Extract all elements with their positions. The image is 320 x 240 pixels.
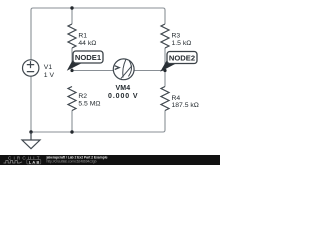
svg-text:LAB: LAB xyxy=(29,160,40,164)
junction dot ground xyxy=(29,130,32,133)
wire R3 bottom lead xyxy=(164,48,166,71)
svg-text:NODE1: NODE1 xyxy=(75,53,102,62)
footer bar xyxy=(0,155,220,165)
wire R1 top lead xyxy=(71,8,73,24)
wire voltmeter to node2 xyxy=(134,70,166,72)
footer logo squarewave xyxy=(4,161,23,163)
svg-text:0.000 V: 0.000 V xyxy=(108,93,138,100)
node NODE2 flag xyxy=(160,52,197,73)
resistor R4 xyxy=(161,87,199,111)
svg-text:1.5 kΩ: 1.5 kΩ xyxy=(172,40,192,47)
wire node1 to voltmeter xyxy=(72,70,114,72)
wire R2 bottom lead xyxy=(71,111,73,133)
svg-text:V1: V1 xyxy=(44,64,53,71)
svg-text:R3: R3 xyxy=(172,32,181,39)
ground xyxy=(22,132,40,149)
resistor R3 xyxy=(161,24,191,48)
junction dot R2 bottom xyxy=(70,130,73,133)
resistor R2 xyxy=(68,87,100,111)
svg-text:5.5 MΩ: 5.5 MΩ xyxy=(78,101,100,108)
wire top run xyxy=(31,8,165,60)
wire node A (R1 bottom to node1) xyxy=(71,48,73,71)
svg-text:187.5 kΩ: 187.5 kΩ xyxy=(172,102,199,109)
voltmeter VM4 xyxy=(108,59,138,100)
junction dot at R1 top xyxy=(70,6,73,9)
svg-text:R4: R4 xyxy=(172,95,181,102)
resistor R1 xyxy=(68,24,96,48)
svg-text:VM4: VM4 xyxy=(116,85,131,92)
node NODE1 flag xyxy=(67,51,103,72)
voltage source V1 xyxy=(23,60,55,79)
wire R4 top lead xyxy=(164,71,166,87)
svg-text:http://circuitlab.com/c6248694: http://circuitlab.com/c6248694c3gb xyxy=(47,160,97,164)
svg-text:R2: R2 xyxy=(78,93,87,100)
svg-text:44 kΩ: 44 kΩ xyxy=(78,40,96,47)
svg-text:NODE2: NODE2 xyxy=(169,53,195,62)
footer logo LAB xyxy=(27,159,41,164)
svg-text:R1: R1 xyxy=(78,32,87,39)
wire bottom run xyxy=(31,76,165,132)
svg-text:1 V: 1 V xyxy=(44,72,55,79)
